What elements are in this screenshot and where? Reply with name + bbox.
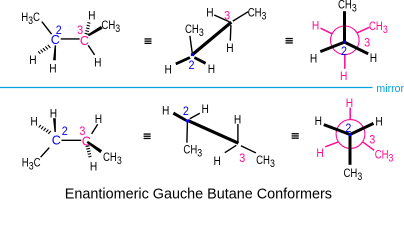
- svg-text:3: 3: [364, 37, 370, 50]
- wire bond C3 to H lower-right: [88, 45, 94, 55]
- label CH3 top (front): [338, 0, 357, 15]
- label H upper-left (front): [315, 115, 322, 128]
- node C2 dot: [191, 53, 194, 56]
- wire bond C2 to H upper-right: [190, 113, 200, 119]
- svg-text:C: C: [52, 134, 61, 148]
- label CH3 bottom (front): [344, 167, 363, 183]
- label H bottom of C2: [49, 63, 56, 76]
- svg-text:H: H: [315, 115, 322, 128]
- svg-text:H: H: [346, 97, 353, 110]
- label H below C3: [226, 42, 233, 55]
- wire bond C2 down-left to H3C: [41, 148, 50, 158]
- wire bond C3 to CH3 upper-right: [233, 12, 248, 21]
- label H above C3: [234, 114, 241, 127]
- svg-text:H: H: [95, 113, 102, 126]
- label H upper-right of C3: [95, 113, 102, 126]
- label H below C3: [90, 161, 97, 174]
- svg-text:H: H: [375, 116, 382, 129]
- label CH3 upper-right of C3: [248, 6, 267, 22]
- svg-text:H: H: [370, 52, 377, 65]
- front bond up to CH3: [343, 11, 346, 42]
- label H3C (methyl on C2): [21, 11, 40, 27]
- circle of Newman projection: [336, 120, 365, 149]
- wire bond H3C to C2: [42, 22, 52, 35]
- back bond up-right to CH3: [357, 27, 369, 33]
- label H3C lower-left: [22, 156, 41, 172]
- front bond up-left to H: [324, 125, 350, 135]
- svg-text:H: H: [29, 54, 36, 67]
- label 2 front carbon: [341, 46, 347, 59]
- label CH3 lower-right of C3: [103, 151, 122, 167]
- bold wedge C3 to CH3 upper-right: [88, 26, 103, 36]
- svg-text:H: H: [49, 63, 56, 76]
- svg-text:2: 2: [341, 46, 347, 59]
- bold wedge C2 up to H: [53, 118, 56, 132]
- svg-text:H: H: [340, 70, 347, 83]
- label H lower-left (front): [310, 53, 317, 66]
- label 3 on C3: [79, 125, 85, 138]
- svg-text:H: H: [226, 42, 233, 55]
- label H upper-left of C2: [30, 116, 37, 129]
- node front carbon dot: [349, 133, 352, 136]
- label H upper-left (back): [312, 20, 319, 33]
- label 2 on C2: [189, 60, 195, 73]
- bold wedge C2 to H lower-right: [194, 56, 206, 64]
- wire bond C3 to H upper-left: [214, 15, 229, 22]
- svg-text:H: H: [310, 53, 317, 66]
- label CH3 lower-right of C3: [256, 154, 275, 170]
- label 3 on C3: [77, 24, 83, 37]
- svg-text:H: H: [312, 20, 319, 33]
- back bond down-right to CH3: [363, 142, 375, 151]
- label CH3 upper-right of C3: [101, 19, 120, 35]
- back bond down to H: [344, 55, 346, 69]
- equivalence sign 2: [286, 38, 293, 44]
- back bond down-left to H: [325, 142, 338, 147]
- label H upper-left of C3: [206, 7, 213, 20]
- hashed wedge C3 to H top: [85, 23, 91, 35]
- equivalence sign 3: [144, 133, 151, 139]
- svg-text:H: H: [234, 114, 241, 127]
- svg-text:2: 2: [56, 24, 62, 37]
- bold wedge C2 to H upper-left: [173, 112, 187, 122]
- svg-text:H: H: [162, 105, 169, 118]
- front bond up-right to H: [350, 123, 374, 134]
- label H lower-right of C2: [208, 63, 215, 76]
- label H upper-left of C2: [162, 105, 169, 118]
- label H lower-left of C2: [29, 54, 36, 67]
- svg-text:H: H: [202, 103, 209, 116]
- bold wedge C2 to H lower-left: [175, 56, 190, 65]
- svg-text:2: 2: [345, 122, 351, 135]
- carbon C3 label: [80, 34, 89, 48]
- svg-text:H: H: [90, 161, 97, 174]
- wire bond C3 to H upper-right: [92, 124, 98, 134]
- wire bond C3 up to H: [237, 124, 239, 143]
- svg-text:H: H: [30, 116, 37, 129]
- front bond down-right to H: [345, 42, 369, 54]
- back bond up-left to H: [321, 28, 332, 34]
- bold wedge C3 to CH3 lower-right: [87, 141, 103, 153]
- label H top of C3: [88, 10, 95, 23]
- label H top (back): [346, 97, 353, 110]
- wire bond C2 down to CH3: [186, 123, 189, 143]
- label 3 back carbon: [364, 37, 370, 50]
- svg-text:2: 2: [62, 125, 68, 138]
- equivalence sign 1: [145, 38, 152, 44]
- equivalence sign 4: [292, 133, 299, 139]
- svg-text:3: 3: [369, 134, 375, 147]
- label 2 on C2: [183, 106, 189, 119]
- back bond up to H: [349, 108, 351, 120]
- svg-text:C: C: [80, 34, 89, 48]
- svg-text:H: H: [88, 10, 95, 23]
- svg-text:3: 3: [239, 153, 245, 166]
- hashed wedge C3 down to H: [86, 146, 92, 157]
- svg-text:mirror: mirror: [376, 83, 404, 95]
- circle of Newman projection: [331, 26, 360, 55]
- label 2 on C2: [56, 24, 62, 37]
- label H upper-right of C2: [202, 103, 209, 116]
- svg-text:H: H: [206, 7, 213, 20]
- label CH3 above C2: [185, 23, 204, 39]
- wire bond C3 down to H: [229, 25, 232, 41]
- carbon C3 label: [82, 135, 91, 149]
- label H lower-right (front): [370, 52, 377, 65]
- bold bond C2-C3: [188, 121, 238, 144]
- svg-text:2: 2: [183, 106, 189, 119]
- node front carbon dot: [343, 41, 346, 44]
- bold bond C2-C3: [192, 22, 231, 54]
- hashed wedge C2 to H lower-left: [38, 45, 50, 54]
- label 3 back carbon: [369, 134, 375, 147]
- svg-text:H: H: [214, 155, 221, 168]
- label 2 on C2: [62, 125, 68, 138]
- carbon C2 label: [52, 134, 61, 148]
- label CH3 below C2: [183, 144, 202, 160]
- label 3 on C3: [239, 153, 245, 166]
- wire bond C3 to CH3 lower-right: [241, 146, 256, 153]
- wire bond C2-C3: [62, 139, 82, 141]
- label H lower-left of C2: [165, 64, 172, 77]
- mirror line: [0, 87, 373, 89]
- label 2 front carbon: [345, 122, 351, 135]
- front bond down to CH3: [349, 135, 352, 165]
- wire bond C2-C3: [61, 38, 80, 40]
- label H lower-left (back): [316, 147, 323, 160]
- bold wedge C2 to H bottom: [53, 45, 56, 60]
- label H top of C2: [50, 108, 57, 121]
- label 3 on C3: [224, 10, 230, 23]
- svg-text:Enantiomeric Gauche Butane Con: Enantiomeric Gauche Butane Conformers: [65, 187, 332, 203]
- svg-text:2: 2: [189, 60, 195, 73]
- label H lower-left of C3: [214, 155, 221, 168]
- label CH3 upper-right (back): [369, 20, 388, 36]
- node C2 dot: [186, 119, 189, 122]
- label CH3 lower-right (back): [375, 149, 394, 165]
- svg-text:H: H: [316, 147, 323, 160]
- svg-text:H: H: [165, 64, 172, 77]
- wire bond C3 to H lower-left: [225, 145, 237, 152]
- carbon C2 label: [51, 33, 60, 47]
- svg-text:H: H: [94, 57, 101, 70]
- label H lower-right of C3: [94, 57, 101, 70]
- wire bond C2 up to CH3: [190, 36, 192, 53]
- label H upper-right (front): [375, 116, 382, 129]
- front bond down-left to H: [320, 42, 344, 52]
- svg-text:H: H: [208, 63, 215, 76]
- hashed wedge C2 to H upper-left: [39, 125, 51, 134]
- label H bottom (back): [340, 70, 347, 83]
